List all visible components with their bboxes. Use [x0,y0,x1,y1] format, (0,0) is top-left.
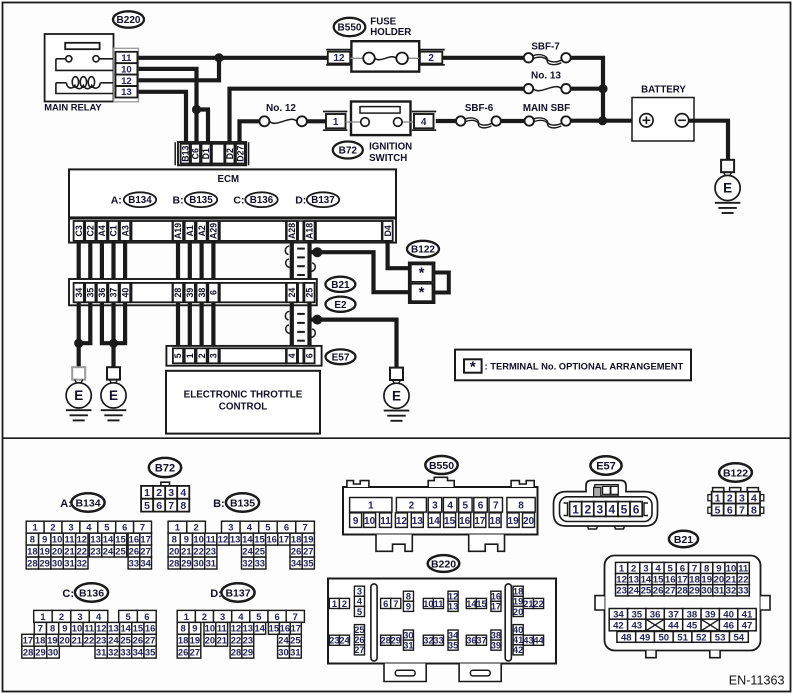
connector label B122 (schematic) [407,241,439,257]
svg-text:17: 17 [677,575,688,586]
svg-text:17: 17 [140,534,150,545]
svg-text:6: 6 [144,611,149,622]
svg-text:6: 6 [727,504,733,516]
wire 24 to ETC 4 [290,302,294,348]
svg-text:22: 22 [193,546,203,557]
svg-text:D:: D: [295,195,306,207]
svg-text:4: 4 [247,522,253,533]
wire pin x=213 [211,241,215,283]
svg-text:6: 6 [383,599,388,609]
svg-text:D1: D1 [201,148,211,159]
svg-text:2: 2 [202,611,207,622]
svg-text:24: 24 [339,636,350,646]
svg-text:21: 21 [523,599,533,609]
svg-text:30: 30 [278,647,288,658]
svg-text:31: 31 [290,647,300,658]
svg-text:11: 11 [121,53,132,64]
svg-text:8: 8 [518,500,524,511]
connector B21 housing [595,556,770,658]
svg-text:12: 12 [396,516,408,527]
svg-text:3: 3 [228,522,233,533]
svg-text:27: 27 [354,645,364,655]
wire: SBF-7 to battery vertical [571,58,604,121]
wire: branch to ECM D1 [197,110,209,143]
svg-text:5: 5 [125,611,130,622]
wire: No.12 to ignition terminal 1 [307,119,327,123]
wires: grounds from pins 34/35 [77,302,81,368]
connector label B220 (bottom) [428,555,460,572]
svg-text:22: 22 [84,635,94,646]
svg-text:SBF-6: SBF-6 [465,103,494,114]
svg-text:29: 29 [243,647,253,658]
B122 2-terminal connector [409,263,449,303]
svg-text:50: 50 [658,632,669,643]
svg-text:9: 9 [192,623,197,634]
svg-text:20: 20 [714,575,725,586]
svg-text:34: 34 [74,288,84,298]
svg-text:46: 46 [723,621,734,632]
svg-text:2: 2 [342,599,347,609]
svg-text:3: 3 [357,587,362,597]
svg-text:47: 47 [742,621,753,632]
svg-text:15: 15 [269,623,279,634]
connector label B21 (schematic) [325,277,355,292]
svg-text:28: 28 [677,586,688,597]
relay contact plate [65,43,99,49]
junction relay feed [214,53,223,62]
svg-text:5: 5 [265,522,270,533]
junction A18 branch [312,247,322,257]
svg-text:4: 4 [357,597,363,607]
connector B134 pin grid [26,521,151,569]
junction C6/D1 branch [192,105,201,114]
ground E (pins 36/37/40) [107,367,120,379]
wire: D4 to B122 upper terminal [388,241,409,268]
ground E (battery) [721,160,734,172]
svg-text:26: 26 [129,546,139,557]
svg-text:D27: D27 [236,146,246,162]
svg-text:A2: A2 [197,225,207,236]
B220 pin cells [329,586,544,655]
svg-text:28: 28 [173,288,183,298]
svg-text:8: 8 [180,500,186,512]
ECM top connector strip (B13 C6 D1 D2 D27) [175,142,248,165]
svg-text:53: 53 [715,632,726,643]
svg-text:24: 24 [242,546,253,557]
svg-text:A:: A: [60,498,72,510]
svg-text:C6: C6 [191,148,201,159]
svg-text:1: 1 [332,599,337,609]
svg-text:42: 42 [513,645,523,655]
svg-text:17: 17 [474,516,486,527]
svg-text:4: 4 [86,522,92,533]
svg-text:20: 20 [205,635,215,646]
fuse SBF-7 [524,41,571,64]
ETC pin strip [166,346,321,366]
svg-text:HOLDER: HOLDER [370,27,411,38]
wire pin x=125 [123,241,127,283]
wire etc x=213 [211,302,215,348]
svg-text:20: 20 [523,516,535,527]
svg-text:9: 9 [184,534,189,545]
svg-text:7: 7 [168,500,174,512]
svg-text:25: 25 [120,635,130,646]
wire pin x=114 [111,241,115,283]
svg-text:E: E [723,181,732,196]
svg-text:10: 10 [121,64,132,75]
svg-text:2: 2 [428,53,434,64]
svg-text:5: 5 [715,504,721,516]
connector B122 housing [708,488,764,514]
svg-text:19: 19 [303,534,313,545]
main relay box [45,34,114,102]
svg-text:5: 5 [173,353,183,358]
svg-text:29: 29 [181,557,191,568]
svg-text:11: 11 [65,534,75,545]
svg-text:: TERMINAL No. OPTIONAL ARRANG: : TERMINAL No. OPTIONAL ARRANGEMENT [485,360,684,371]
svg-text:MAIN SBF: MAIN SBF [523,103,570,114]
junction battery feed lower [598,116,607,125]
svg-text:37: 37 [476,636,486,646]
svg-text:11: 11 [84,623,94,634]
svg-text:11: 11 [380,516,391,527]
svg-text:10: 10 [364,516,376,527]
svg-text:39: 39 [185,288,195,298]
svg-text:2: 2 [197,353,207,358]
svg-text:15: 15 [254,534,264,545]
svg-text:30: 30 [193,557,203,568]
connector label B550 (top) [334,18,366,36]
svg-text:20: 20 [169,546,179,557]
svg-text:13: 13 [448,602,458,612]
battery [632,85,694,142]
svg-text:4: 4 [421,117,427,128]
junction battery feed upper [598,84,607,93]
svg-text:6: 6 [274,611,279,622]
svg-text:12: 12 [333,53,345,64]
svg-text:6: 6 [633,502,640,516]
svg-text:25: 25 [641,586,652,597]
svg-text:IGNITION: IGNITION [369,142,412,153]
svg-text:28: 28 [27,557,37,568]
connector label B72 (top) [333,142,363,159]
svg-text:43: 43 [631,621,642,632]
svg-text:20: 20 [513,607,523,617]
fuse MAIN SBF [523,103,571,128]
connector label B220 (top) [113,11,144,27]
svg-text:D4: D4 [383,225,393,236]
svg-text:33: 33 [255,557,265,568]
svg-text:A3: A3 [120,225,130,236]
wire: E2 branch to ground [311,320,397,368]
svg-text:1: 1 [572,502,579,516]
connector label B21 (bottom) [669,531,698,547]
svg-text:3: 3 [220,611,225,622]
svg-text:B135: B135 [189,195,213,206]
svg-text:36: 36 [97,288,107,298]
svg-text:5: 5 [256,611,261,622]
svg-text:26: 26 [291,546,301,557]
svg-text:B135: B135 [230,497,255,509]
svg-text:16: 16 [665,575,676,586]
svg-text:34: 34 [133,647,144,658]
svg-text:19: 19 [47,635,57,646]
svg-text:9: 9 [62,623,67,634]
svg-text:14: 14 [242,534,253,545]
svg-text:B134: B134 [75,497,100,509]
svg-text:14: 14 [641,575,652,586]
svg-text:B137: B137 [311,195,335,206]
svg-text:ELECTRONIC THROTTLE: ELECTRONIC THROTTLE [184,389,303,400]
svg-text:32: 32 [726,586,737,597]
wire: ignition 4 to SBF-6 [436,119,456,123]
svg-text:2: 2 [409,500,415,511]
svg-text:51: 51 [677,632,688,643]
svg-text:23: 23 [243,635,253,646]
svg-text:45: 45 [687,621,698,632]
svg-text:8: 8 [180,623,185,634]
svg-text:14: 14 [120,623,131,634]
svg-text:7: 7 [739,504,745,516]
svg-text:27: 27 [665,586,676,597]
svg-text:34: 34 [291,557,302,568]
svg-text:E: E [74,388,83,403]
svg-text:41: 41 [513,635,523,645]
svg-text:B136: B136 [250,195,274,206]
svg-text:1: 1 [715,493,721,505]
svg-text:22: 22 [77,546,87,557]
svg-text:15: 15 [133,623,143,634]
svg-text:B550: B550 [429,460,454,472]
svg-text:A1: A1 [185,225,195,236]
svg-text:16: 16 [280,623,290,634]
svg-text:15: 15 [444,516,456,527]
svg-text:35: 35 [86,288,96,298]
wire 25 to ETC 6 [307,302,311,348]
svg-text:8: 8 [30,534,35,545]
svg-text:3: 3 [597,502,604,516]
svg-text:16: 16 [459,516,471,527]
svg-text:5: 5 [621,502,628,516]
wire pin x=79 [77,241,81,283]
ECM connector name labels [111,192,339,207]
svg-text:17: 17 [491,602,501,612]
relay connector strip (pins 11 10 12 13) [114,48,139,102]
svg-text:14: 14 [103,534,114,545]
svg-text:13: 13 [230,534,240,545]
svg-text:12: 12 [96,623,106,634]
svg-text:25: 25 [305,288,315,298]
svg-text:B72: B72 [339,146,358,157]
fuse No. 12 [259,103,307,127]
wire pin x=190 [188,241,192,283]
svg-text:19: 19 [190,635,200,646]
svg-text:22: 22 [533,599,543,609]
connector label B122 (bottom) [719,463,752,481]
svg-text:2: 2 [156,487,162,499]
svg-text:40: 40 [513,625,523,635]
svg-text:7: 7 [493,500,499,511]
ECM box [69,169,396,217]
svg-text:24: 24 [278,635,289,646]
svg-text:29: 29 [39,557,49,568]
svg-text:18: 18 [35,635,45,646]
svg-text:21: 21 [217,635,227,646]
svg-text:14: 14 [429,516,441,527]
svg-text:29: 29 [35,647,45,658]
svg-text:25: 25 [115,546,125,557]
svg-text:CONTROL: CONTROL [219,402,267,413]
connector E57 housing [554,480,658,529]
svg-text:27: 27 [190,647,200,658]
ground E (pins 34/35) [72,367,85,379]
svg-text:C:: C: [233,195,244,207]
B122 pin cells [712,492,760,517]
svg-text:6: 6 [284,522,289,533]
svg-text:18: 18 [689,575,700,586]
wire: relay pin 13 down to ECM B13 [138,92,186,143]
svg-text:22: 22 [738,575,749,586]
svg-text:4: 4 [287,353,297,358]
svg-text:13: 13 [108,623,118,634]
svg-text:28: 28 [169,557,179,568]
svg-text:10: 10 [72,623,82,634]
svg-text:6: 6 [156,500,162,512]
svg-text:E2: E2 [334,300,347,311]
svg-text:31: 31 [403,641,413,651]
svg-text:2: 2 [59,611,64,622]
svg-text:E: E [392,388,401,403]
svg-text:3: 3 [739,493,745,505]
svg-text:38: 38 [491,630,501,640]
svg-text:*: * [419,284,425,301]
svg-text:16: 16 [266,534,276,545]
svg-text:25: 25 [290,635,300,646]
svg-text:13: 13 [243,623,253,634]
svg-text:30: 30 [48,647,58,658]
svg-text:23: 23 [96,635,106,646]
svg-text:13: 13 [412,516,424,527]
svg-text:BATTERY: BATTERY [641,85,686,96]
svg-text:16: 16 [145,623,155,634]
wires: grounds from pins 36/37/40 [111,302,115,368]
wire A18 down [307,241,311,283]
wire: SBF-6 to MAIN SBF [501,119,525,123]
svg-text:26: 26 [178,647,188,658]
svg-text:8: 8 [50,623,55,634]
svg-text:24: 24 [108,635,119,646]
svg-text:14: 14 [254,623,265,634]
wire etc x=190 [188,302,192,348]
svg-text:31: 31 [64,557,74,568]
svg-text:B137: B137 [225,587,250,599]
svg-text:44: 44 [668,621,679,632]
svg-text:B220: B220 [431,558,456,570]
svg-text:20: 20 [52,546,62,557]
wire pin x=102 [100,241,104,283]
wire A28 down [290,241,294,283]
svg-text:22: 22 [231,635,241,646]
svg-text:38: 38 [197,288,207,298]
connector label E57 (bottom) [590,456,621,474]
svg-text:32: 32 [423,636,433,646]
svg-text:17: 17 [279,534,289,545]
fuse SBF-6 [456,103,501,128]
ignition terminal 4 [412,112,437,131]
svg-text:C2: C2 [86,225,96,236]
svg-text:36: 36 [466,636,476,646]
svg-text:23: 23 [90,546,100,557]
svg-text:33: 33 [738,586,749,597]
svg-text:15: 15 [476,599,486,609]
svg-text:35: 35 [145,647,155,658]
svg-text:4: 4 [180,487,186,499]
svg-text:3: 3 [209,353,219,358]
svg-text:49: 49 [640,632,651,643]
svg-text:D:: D: [210,588,222,600]
svg-text:32: 32 [108,647,118,658]
svg-text:A4: A4 [97,225,107,236]
svg-text:30: 30 [701,586,712,597]
svg-text:23: 23 [329,636,339,646]
svg-text:8: 8 [751,504,757,516]
electronic throttle control box [166,371,320,434]
svg-text:19: 19 [513,597,523,607]
ECM bottom pin strip [69,219,396,243]
E57 pin cells [570,502,643,517]
B550 pin cells [350,498,536,528]
svg-text:6: 6 [478,500,484,511]
svg-text:30: 30 [403,630,413,640]
svg-text:12: 12 [121,76,132,87]
svg-text:25: 25 [255,546,265,557]
svg-text:18: 18 [291,534,301,545]
svg-text:29: 29 [689,586,700,597]
svg-text:No. 12: No. 12 [266,103,296,114]
svg-text:21: 21 [726,575,737,586]
svg-text:11: 11 [206,534,216,545]
svg-text:30: 30 [52,557,62,568]
svg-text:32: 32 [242,557,252,568]
B21 pin strip (second row) [69,279,317,305]
svg-text:2: 2 [193,522,198,533]
svg-text:1: 1 [185,353,195,358]
svg-text:40: 40 [120,288,130,298]
svg-text:13: 13 [90,534,100,545]
svg-text:1: 1 [184,611,189,622]
svg-text:B13: B13 [180,146,190,162]
svg-text:16: 16 [129,534,139,545]
svg-text:8: 8 [406,592,411,602]
svg-text:A28: A28 [287,223,297,239]
svg-text:SWITCH: SWITCH [369,153,407,164]
svg-text:9: 9 [406,602,411,612]
svg-text:20: 20 [59,635,69,646]
svg-text:27: 27 [145,635,155,646]
svg-text:C:: C: [62,588,74,600]
svg-text:18: 18 [513,587,523,597]
svg-text:21: 21 [181,546,191,557]
svg-text:4: 4 [751,493,757,505]
relay coil [56,77,114,94]
svg-text:No. 13: No. 13 [531,71,561,82]
svg-text:12: 12 [448,592,458,602]
fuse holder terminal 2 [418,50,444,65]
ground E (E2) [390,368,403,380]
wire: relay pin 10 down to ECM C6 [138,69,196,143]
fuse holder terminal 12 [326,50,351,65]
svg-text:34: 34 [448,630,459,640]
